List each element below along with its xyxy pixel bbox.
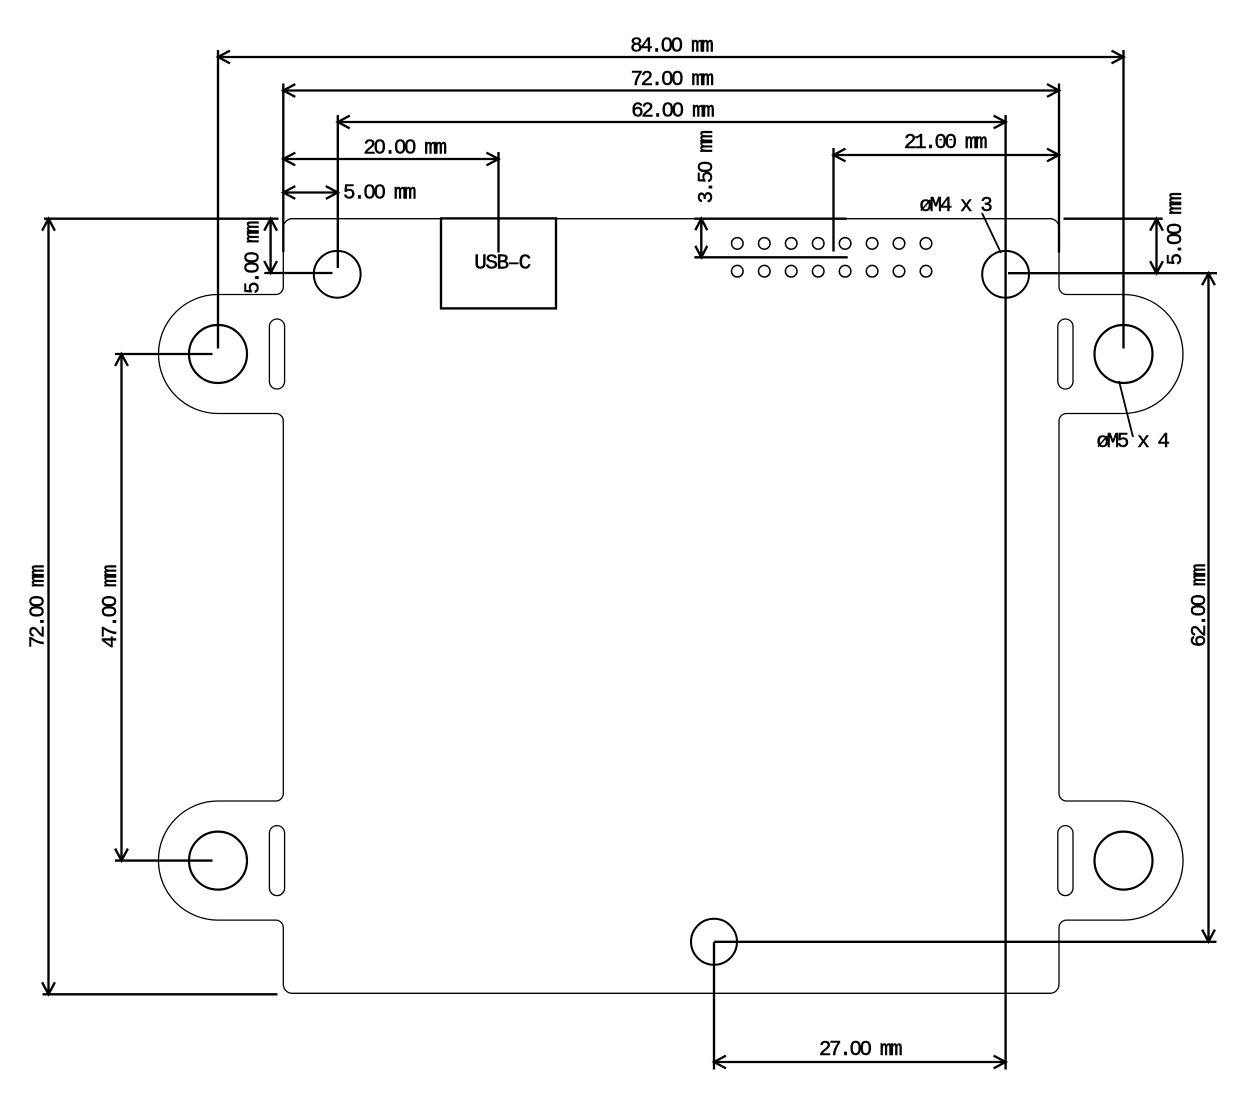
slot bottom-right (1058, 826, 1073, 896)
pin header 2x8 (732, 238, 932, 277)
dimension 5.00 mm top-left horizontal (283, 186, 338, 199)
svg-text:72.00 mm: 72.00 mm (630, 69, 713, 92)
slot top-left (269, 319, 284, 389)
dimension 72.00 mm top (283, 84, 1059, 253)
dimension 21.00 mm (834, 148, 1060, 252)
svg-text:72.00 mm: 72.00 mm (28, 565, 51, 648)
dimension 20.00 mm (283, 152, 498, 253)
USB-C connector box (441, 218, 556, 308)
svg-text:27.00 mm: 27.00 mm (819, 1039, 902, 1062)
hole M4 top-right (982, 251, 1029, 298)
dimension 72.00 mm left vertical (42, 219, 278, 995)
dimension 27.00 mm bottom (714, 942, 1006, 1070)
svg-text:øM5 x 4: øM5 x 4 (1097, 431, 1170, 454)
dimension 84.00 mm top (218, 50, 1124, 349)
svg-text:62.00 mm: 62.00 mm (1189, 564, 1212, 647)
svg-text:21.00 mm: 21.00 mm (904, 132, 987, 155)
slot top-right (1058, 319, 1073, 389)
hole M4 bottom-center (691, 919, 737, 965)
dimension 5.00 mm top-left vertical (264, 219, 332, 273)
hole M5 top-left (189, 325, 247, 383)
leader and label M5 x 4 (1119, 381, 1133, 437)
board outline (158, 219, 1183, 994)
slot bottom-left (269, 826, 284, 896)
hole M5 bottom-right (1095, 832, 1153, 890)
dimension 47.00 mm left vertical (115, 354, 213, 861)
svg-text:20.00 mm: 20.00 mm (363, 138, 446, 161)
hole M5 top-right (1095, 325, 1153, 383)
dimension 62.00 mm top (338, 115, 1006, 1070)
dimension 3.50 mm vertical (694, 219, 847, 258)
dimension 5.00 mm top-right vertical (1008, 219, 1217, 274)
svg-text:USB–C: USB–C (474, 253, 530, 276)
svg-text:47.00 mm: 47.00 mm (100, 565, 123, 648)
leader and label M4 x 3 (982, 213, 1001, 253)
hole M4 top-left (314, 251, 361, 298)
svg-text:øM4 x 3: øM4 x 3 (919, 195, 992, 218)
dimension 62.00 mm right vertical (714, 273, 1217, 942)
svg-text:62.00 mm: 62.00 mm (631, 101, 714, 124)
svg-text:84.00 mm: 84.00 mm (630, 36, 713, 59)
hole M5 bottom-left (189, 832, 247, 890)
